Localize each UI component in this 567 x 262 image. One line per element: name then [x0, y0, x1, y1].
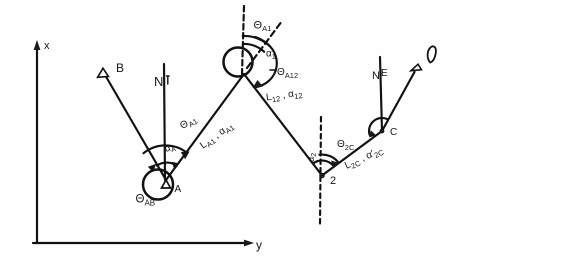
svg-text:α1: α1 [266, 49, 276, 62]
svg-text:ΘA12: ΘA12 [277, 67, 298, 80]
svg-text:ΘA1: ΘA1 [254, 20, 272, 34]
svg-text:ΘAB: ΘAB [136, 194, 156, 208]
svg-text:E: E [381, 68, 388, 79]
svg-text:Θ2C: Θ2C [337, 139, 355, 152]
svg-text:αA: αA [163, 141, 177, 156]
svg-text:N: N [372, 70, 380, 82]
svg-text:x: x [44, 40, 50, 52]
svg-text:ΘA1: ΘA1 [178, 113, 199, 133]
svg-text:2: 2 [330, 175, 336, 187]
svg-text:A: A [175, 184, 182, 195]
svg-text:L12 , α12: L12 , α12 [265, 88, 303, 105]
svg-text:C: C [390, 127, 397, 138]
svg-text:LA1 , αA1: LA1 , αA1 [198, 120, 236, 152]
svg-text:B: B [116, 61, 124, 75]
svg-text:N: N [154, 74, 163, 89]
svg-text:y: y [256, 238, 262, 252]
